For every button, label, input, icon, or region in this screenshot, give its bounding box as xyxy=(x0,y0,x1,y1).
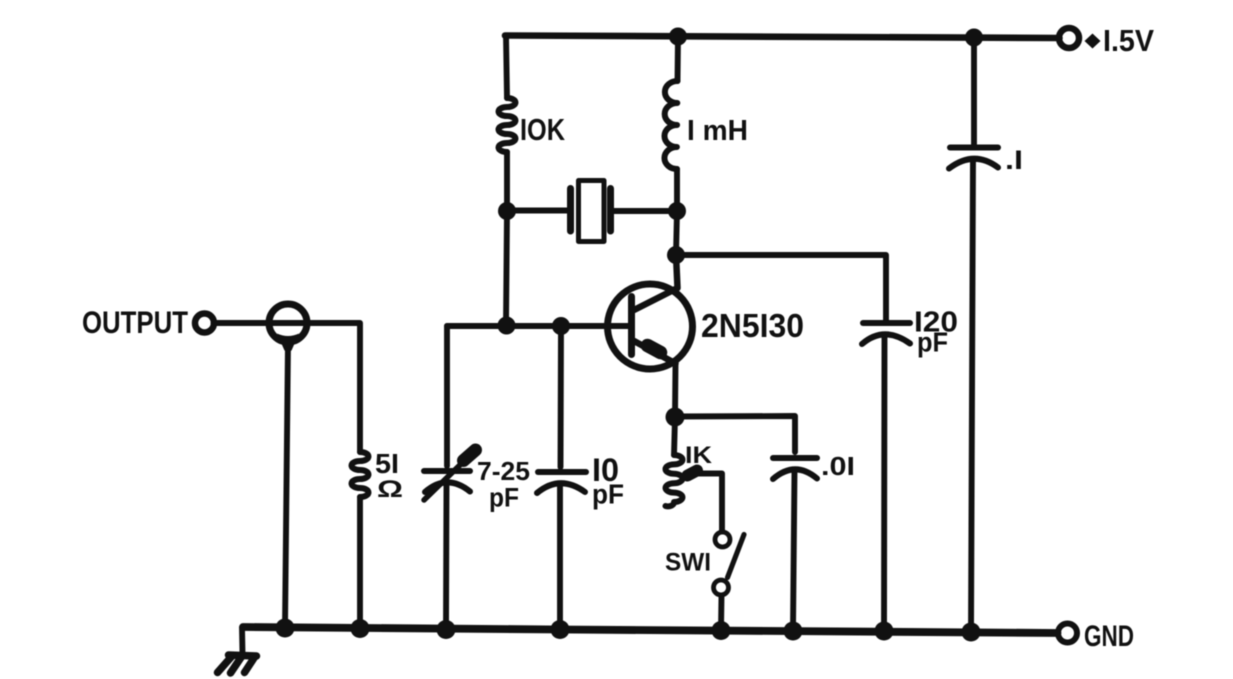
svg-text:.I: .I xyxy=(1005,145,1023,175)
svg-text:I.5V: I.5V xyxy=(1103,23,1154,58)
svg-text:pF: pF xyxy=(592,479,624,510)
svg-text:IK: IK xyxy=(685,442,713,469)
svg-text:Ω: Ω xyxy=(377,476,403,503)
svg-text:5I: 5I xyxy=(375,448,399,479)
svg-text:pF: pF xyxy=(917,327,948,358)
svg-text:SWI: SWI xyxy=(665,549,711,577)
svg-text:2N5I30: 2N5I30 xyxy=(701,307,804,344)
svg-text:7-25: 7-25 xyxy=(477,456,530,486)
svg-text:IOK: IOK xyxy=(520,112,565,147)
svg-text:GND: GND xyxy=(1084,620,1134,653)
svg-text:I mH: I mH xyxy=(687,115,748,147)
svg-text:pF: pF xyxy=(489,483,519,513)
svg-text:.0I: .0I xyxy=(821,451,855,481)
svg-text:OUTPUT: OUTPUT xyxy=(82,304,188,340)
